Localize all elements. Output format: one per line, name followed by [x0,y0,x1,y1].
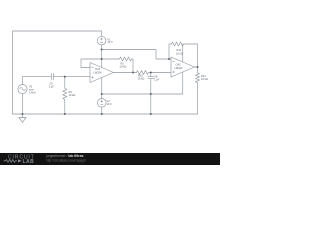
svg-text:1 µF: 1 µF [154,77,160,81]
svg-text:10 kΩ: 10 kΩ [138,77,145,81]
svg-text:R11: R11 [177,48,182,52]
svg-text:1 kHz: 1 kHz [29,91,36,95]
svg-text:10 V: 10 V [107,40,113,44]
svg-text:OA1: OA1 [95,67,101,71]
svg-text:10 kΩ: 10 kΩ [120,64,127,68]
svg-text:1 µF: 1 µF [49,84,55,88]
svg-text:10 V: 10 V [107,102,113,106]
svg-text:10 kΩ: 10 kΩ [201,77,208,81]
svg-text:http://circuitlab.com/cmpqgrt: http://circuitlab.com/cmpqgrt [46,158,86,162]
svg-text:LAB: LAB [23,159,35,165]
svg-text:LM324: LM324 [175,66,183,70]
svg-text:10 kΩ: 10 kΩ [176,52,183,56]
svg-text:LM324: LM324 [94,70,102,74]
svg-text:10 kΩ: 10 kΩ [69,93,76,97]
